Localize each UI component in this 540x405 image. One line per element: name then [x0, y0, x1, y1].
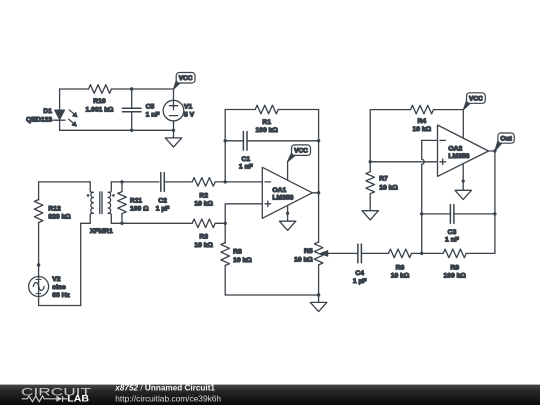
- junction R6-R9-C3: [420, 252, 423, 255]
- node Out flag: [495, 133, 515, 151]
- wire primary return vertical: [80, 223, 82, 305]
- wire R4 right lead: [434, 109, 464, 111]
- wire OA2 inverting net vertical with hop: [422, 140, 425, 253]
- svg-text:1 nF: 1 nF: [239, 163, 253, 170]
- svg-text:R1: R1: [262, 119, 271, 126]
- svg-text:VCC: VCC: [469, 96, 483, 103]
- svg-text:10 kΩ: 10 kΩ: [233, 257, 252, 264]
- wire R2 to OA1 inverting input: [215, 181, 262, 183]
- capacitor C3: [445, 205, 459, 244]
- svg-text:100 kΩ: 100 kΩ: [444, 272, 467, 279]
- ground below OA2: [455, 181, 471, 200]
- svg-text:R2: R2: [199, 193, 208, 200]
- wire left column upper: [38, 182, 40, 200]
- resistor R8: [221, 223, 252, 295]
- junction C1 right: [317, 139, 320, 142]
- svg-text:R12: R12: [48, 206, 61, 213]
- svg-text:C3: C3: [448, 229, 457, 236]
- voltage source V1 5V: [163, 89, 194, 130]
- svg-text:5 V: 5 V: [184, 111, 195, 118]
- resistor R2: [192, 178, 215, 208]
- junction feedback left at R2: [224, 180, 227, 183]
- wire R5 bottom: [318, 265, 320, 295]
- op-amp OA2 LM358: [438, 125, 489, 176]
- junction R11 bottom: [120, 222, 123, 225]
- ground below OA1: [279, 213, 295, 230]
- ground at bottom rail: [310, 295, 326, 312]
- svg-text:R7: R7: [379, 176, 388, 183]
- capacitor C2: [156, 173, 170, 213]
- svg-text:OA2: OA2: [448, 145, 462, 152]
- svg-text:820 kΩ: 820 kΩ: [48, 213, 71, 220]
- CircuitLab logo resistor-diode symbol: [22, 396, 68, 402]
- wire left column lower through V2: [38, 223, 40, 306]
- wire bottom of top-left block: [60, 129, 174, 131]
- junction bottom rail: [317, 293, 320, 296]
- wire R1 right lead: [278, 109, 318, 111]
- svg-text:1 µF: 1 µF: [156, 205, 170, 212]
- svg-text:x8752 / Unnamed Circuit1: x8752 / Unnamed Circuit1: [114, 384, 215, 393]
- resistor R1: [255, 105, 278, 134]
- OA1 V- pin: [287, 206, 289, 214]
- svg-text:100 kΩ: 100 kΩ: [256, 127, 279, 134]
- junction OA1 output: [317, 191, 320, 194]
- wire feedback right vertical: [318, 110, 320, 243]
- OA1 V- pin dot: [286, 212, 289, 215]
- footer bar: [0, 385, 540, 405]
- svg-text:100 Ω: 100 Ω: [130, 205, 149, 212]
- transformer XFMR1: [87, 182, 115, 235]
- wire R4 left lead: [370, 109, 410, 111]
- wire to OA1 non-inverting input: [225, 204, 262, 224]
- ground below V1: [165, 130, 181, 147]
- svg-text:10 kΩ: 10 kΩ: [194, 201, 213, 208]
- svg-text:R5: R5: [304, 248, 313, 255]
- junction R12-V2: [37, 263, 40, 266]
- wire C5 top lead: [131, 89, 133, 108]
- svg-text:XFMR1: XFMR1: [90, 228, 113, 235]
- svg-text:R11: R11: [130, 198, 142, 205]
- op-amp OA1 LM358: [262, 167, 312, 218]
- ground below R7: [362, 211, 378, 220]
- wire C5 bottom lead: [131, 112, 133, 131]
- svg-text:10 kΩ: 10 kΩ: [413, 126, 432, 133]
- wire left branch down to D1: [59, 89, 61, 110]
- svg-text:R3: R3: [199, 234, 208, 241]
- svg-text:10 kΩ: 10 kΩ: [391, 272, 410, 279]
- svg-text:LAB: LAB: [67, 394, 89, 405]
- capacitor C1: [239, 132, 253, 171]
- junction C3 left: [420, 212, 423, 215]
- wire R4 vertical left: [369, 110, 371, 162]
- svg-text:R10: R10: [93, 98, 106, 105]
- wire C3 left lead: [422, 213, 451, 215]
- junction R11 top: [120, 180, 123, 183]
- node VCC flag at OA1: [287, 145, 310, 162]
- wire C4 to R6: [362, 252, 389, 254]
- svg-text:R6: R6: [396, 265, 405, 272]
- junction R3-R8-noninv: [224, 222, 227, 225]
- diode D1 QED123: [26, 108, 77, 126]
- svg-text:1.001 kΩ: 1.001 kΩ: [86, 106, 115, 113]
- svg-text:10 kΩ: 10 kΩ: [379, 185, 398, 192]
- wire C3 right lead: [454, 213, 495, 215]
- junction V1 bottom: [172, 129, 175, 132]
- svg-text:LM358: LM358: [272, 194, 293, 201]
- junction C1 left: [224, 139, 227, 142]
- wire primary bottom stub: [81, 222, 91, 224]
- wire C1 left lead: [225, 140, 243, 142]
- resistor R12: [34, 200, 71, 223]
- wire D1 to bottom-left: [59, 120, 61, 130]
- svg-text:10 kΩ: 10 kΩ: [294, 257, 313, 264]
- wire top-left horizontal (D1 to R10): [60, 88, 89, 90]
- svg-text:QED123: QED123: [26, 116, 52, 123]
- svg-text:C1: C1: [241, 156, 250, 163]
- wire V2 loop top horizontal: [39, 181, 91, 183]
- wire C2 to R2: [164, 181, 192, 183]
- wire V2 bottom horizontal: [39, 305, 81, 307]
- junction C3 right: [493, 212, 496, 215]
- wire R10 right to V1 top: [112, 88, 174, 90]
- svg-text:D1: D1: [43, 108, 52, 115]
- svg-text:VCC: VCC: [294, 148, 308, 155]
- resistor R4: [411, 105, 434, 133]
- resistor R10: [86, 85, 115, 114]
- wire bottom ground rail: [225, 294, 318, 296]
- svg-text:V2: V2: [52, 276, 61, 283]
- svg-text:1 nF: 1 nF: [445, 237, 459, 244]
- resistor R9: [443, 249, 466, 279]
- svg-text:OA1: OA1: [272, 187, 286, 194]
- OA2 V- pin: [462, 163, 464, 181]
- node VCC flag at OA2: [463, 93, 485, 110]
- wire R1 left lead: [225, 109, 255, 111]
- svg-text:R4: R4: [417, 118, 426, 125]
- wire OA1 output stub: [312, 192, 318, 194]
- voltage source V2 sine 60Hz: [29, 276, 71, 299]
- svg-text:VCC: VCC: [179, 75, 193, 82]
- wire C1 right lead: [247, 140, 319, 142]
- junction C5 bottom: [130, 129, 133, 132]
- svg-text:1 µF: 1 µF: [353, 278, 367, 285]
- wire secondary top: [111, 181, 159, 183]
- resistor R3: [192, 219, 215, 249]
- svg-text:R8: R8: [233, 249, 242, 256]
- potentiometer R5: [294, 242, 358, 265]
- svg-text:LM358: LM358: [448, 153, 469, 160]
- node VCC flag at V1: [173, 73, 195, 90]
- svg-text:C2: C2: [158, 198, 167, 205]
- wire R6 to R9: [412, 252, 444, 254]
- svg-text:V1: V1: [184, 104, 193, 111]
- resistor R7: [366, 162, 398, 211]
- OA1 VCC pin: [287, 162, 289, 181]
- resistor R11: [118, 182, 149, 223]
- resistor R6: [389, 249, 412, 279]
- svg-text:60 Hz: 60 Hz: [52, 292, 70, 299]
- wire R9 right to output vertical: [466, 151, 495, 253]
- svg-text:http://circuitlab.com/ce39k6h: http://circuitlab.com/ce39k6h: [115, 393, 221, 403]
- svg-text:C5: C5: [146, 104, 155, 111]
- junction C5 top: [130, 87, 133, 90]
- junction OA2 output: [493, 149, 496, 152]
- svg-text:1 nF: 1 nF: [146, 111, 160, 118]
- capacitor C5: [123, 104, 160, 119]
- OA2 V- pin dot: [462, 179, 465, 182]
- wire feedback left vertical: [224, 110, 226, 182]
- wire OA2 non-inverting input: [370, 161, 437, 163]
- wire R3 right: [215, 222, 225, 224]
- svg-text:Out: Out: [500, 136, 512, 143]
- OA2 VCC pin: [462, 110, 464, 138]
- svg-text:sine: sine: [52, 284, 66, 291]
- wire OA2 inverting input: [422, 139, 438, 141]
- junction R7 top: [369, 160, 372, 163]
- svg-text:R9: R9: [450, 265, 459, 272]
- capacitor C4: [353, 244, 367, 285]
- svg-text:10 kΩ: 10 kΩ: [194, 242, 213, 249]
- svg-text:C4: C4: [355, 270, 364, 277]
- wire OA2 output stub: [489, 150, 495, 152]
- wire secondary bottom to R3: [111, 222, 192, 224]
